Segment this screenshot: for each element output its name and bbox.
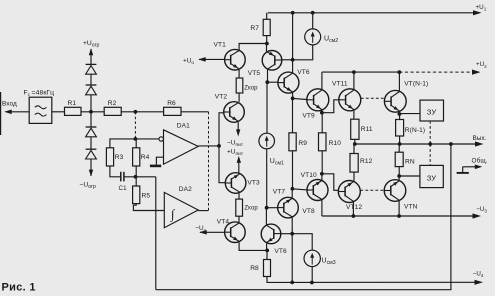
transistor VT1	[225, 49, 246, 70]
wire R(N-1) to output rail	[399, 136, 401, 144]
wire VT3 to Zkor lower	[238, 193, 240, 199]
svg-text:Вход: Вход	[2, 101, 17, 108]
wire VT12 collector to -U3 rail	[352, 202, 354, 216]
node VT8 emitter/rail	[290, 281, 294, 285]
wire node to VD3	[90, 112, 92, 128]
current source Ucm2	[305, 29, 321, 45]
resistor R5	[133, 177, 151, 204]
wire filter to R1	[52, 111, 65, 113]
wire emitter node to ZU1	[399, 113, 420, 115]
dashed wire tap down to DA1 input line	[134, 112, 136, 139]
diode VD2	[86, 85, 97, 95]
svg-text:DA2: DA2	[179, 186, 192, 193]
wire Zkor to VT2 collector	[238, 93, 240, 102]
dashed link VT12 to VTN	[360, 189, 384, 191]
resistor RN	[395, 152, 415, 166]
wire bus to VT7 top	[265, 208, 267, 225]
node VTN/-U3 rail	[397, 214, 401, 218]
node feedback on rail	[449, 142, 453, 146]
dashed wire ZU2 to output rail	[429, 144, 431, 165]
transistor VT11	[339, 89, 361, 111]
node VT5/VT6/Ucm2	[291, 58, 295, 62]
transistor VT7 (lower driver)	[261, 224, 281, 244]
wire R6 to integrator link	[181, 111, 209, 113]
svg-text:R10: R10	[329, 140, 342, 147]
resistor R(N-1)	[396, 120, 426, 137]
wire R11 to output rail	[354, 139, 356, 144]
svg-text:R2: R2	[108, 100, 117, 107]
power rail +U2 dashed part	[399, 71, 473, 73]
wire VT9 collector to +U2 rail	[321, 72, 323, 89]
node R9/VT8/VT10-base	[291, 187, 295, 191]
arrow to -Upit	[236, 129, 240, 136]
svg-text:R5: R5	[142, 192, 151, 199]
node R7/VT1/VT5	[265, 42, 269, 46]
wire VTN emitter up	[398, 176, 400, 180]
wire DA1 inverting input line	[110, 139, 161, 148]
wire VD1-VD2	[90, 74, 92, 85]
arrow -U3	[473, 213, 482, 218]
resistor R3	[106, 148, 123, 166]
wire VT5 right lead	[281, 59, 293, 61]
wire VT11 emitter to R11	[353, 111, 355, 120]
wire C1 to node	[124, 176, 156, 178]
resistor R1	[65, 100, 82, 116]
node junction C1/R4/R5	[134, 175, 138, 179]
svg-text:R3: R3	[115, 154, 124, 161]
wire VT5 bottom lead	[267, 70, 269, 83]
wire VT6 emitter to VT9 base	[293, 98, 307, 99]
wire R10 to VT10 emitter node	[321, 151, 323, 174]
wire VT6 base	[267, 81, 278, 83]
node VT8 base tee	[265, 206, 269, 210]
wire -Uo arrow to VT4 base	[199, 230, 225, 235]
wire VT9 emitter	[321, 111, 323, 113]
wire driver bus down to VT3 base	[219, 146, 226, 183]
arrow +U2	[472, 70, 481, 75]
wire Ucm1 to VT8 base bus	[266, 149, 268, 208]
arrow +U1	[473, 10, 482, 15]
wire VT8 emitter down	[291, 218, 293, 283]
dashed wire ZU1 to output rail	[429, 121, 431, 144]
node VT(N-1)/rail	[397, 70, 401, 74]
power rail +U1	[268, 12, 480, 14]
svg-text:VT12: VT12	[346, 204, 362, 211]
wire rail to R12	[353, 144, 355, 154]
svg-text:VT4: VT4	[217, 219, 230, 226]
wire R1 to R2	[81, 111, 104, 113]
transistor VT5	[262, 51, 282, 71]
wire VT2 emitter down	[237, 122, 239, 130]
svg-text:VT1: VT1	[214, 41, 227, 48]
svg-text:DA1: DA1	[177, 122, 190, 129]
op-amp DA1	[159, 122, 198, 164]
svg-text:VT6: VT6	[297, 69, 310, 76]
node Ucm3/rail	[310, 281, 314, 285]
common arrow with ground	[457, 165, 483, 173]
wire VT9 emitter to VT11 base	[322, 100, 339, 113]
wire R5 bottom to DA2 input	[133, 204, 164, 211]
resistor R10	[319, 133, 342, 151]
arrow Vykh	[475, 141, 484, 146]
wire VT1 emitter to Zkor	[238, 70, 240, 78]
svg-text:R8: R8	[250, 265, 259, 272]
svg-text:R9: R9	[298, 140, 307, 147]
svg-text:VT6: VT6	[274, 248, 287, 255]
correction impedance Zkor lower	[236, 199, 259, 216]
node ZU link on rail	[428, 142, 432, 146]
svg-text:R6: R6	[167, 100, 176, 107]
node VT10 emitter junction	[320, 172, 324, 176]
node VT12/-U3 rail	[352, 214, 356, 218]
svg-text:Вых.: Вых.	[473, 135, 487, 142]
node VT6 emitter junction	[291, 97, 295, 101]
node R11/R12 on rail	[353, 142, 357, 146]
low-pass filter block (≈)	[29, 97, 52, 123]
node junction R1/R2/diodes	[89, 110, 93, 114]
svg-text:VT9: VT9	[302, 113, 315, 120]
protection unit ZU upper	[420, 100, 444, 121]
wire feedback node down	[155, 177, 157, 290]
diode VD3	[86, 127, 97, 137]
wire VT8 base	[267, 207, 278, 209]
power rail -U4	[292, 281, 479, 283]
power rail -U3	[322, 215, 478, 217]
transistor VT4	[225, 222, 246, 243]
svg-text:Общ.: Общ.	[472, 157, 488, 165]
resistor R6	[164, 100, 181, 116]
node VT4/VT7/R8	[265, 249, 269, 253]
svg-text:VT11: VT11	[332, 81, 348, 88]
wire Ucm3 bottom to rail	[311, 267, 313, 283]
arrow -U4	[475, 280, 484, 285]
svg-text:C1: C1	[119, 185, 128, 192]
current source Ucm1	[259, 133, 275, 149]
wire bus to Ucm1	[266, 82, 268, 133]
wire R3 bottom to C1	[110, 166, 121, 177]
node RN/VTN/ZU2	[397, 174, 401, 178]
transistor VT3	[225, 173, 246, 194]
feedback wire from output rail to bottom	[156, 144, 451, 290]
node DA1 output junction	[217, 144, 221, 148]
resistor R9	[289, 133, 307, 151]
transistor VT9	[307, 89, 329, 111]
resistor R7	[250, 19, 270, 35]
wire node to R8	[266, 250, 268, 259]
transistor VT10	[307, 180, 328, 201]
current source Ucm3	[304, 250, 320, 266]
resistor R8	[250, 260, 270, 277]
power rail +U2 solid part	[322, 71, 399, 73]
wire DA1 noninv input to ground	[156, 157, 163, 164]
wire VT7 right lead	[280, 233, 292, 235]
wire VD4 down	[90, 159, 92, 176]
node junction on DA1 input line	[134, 137, 138, 141]
wire RN to VTN node	[398, 167, 400, 176]
op-amp DA2 (integrator)	[164, 186, 198, 228]
transistor VT(N-1)	[384, 90, 406, 112]
wire VTN collector to -U3 rail	[398, 201, 400, 216]
wire VT(N-1) collector to rail	[398, 72, 400, 90]
svg-text:R12: R12	[360, 158, 373, 165]
svg-text:VT(N-1): VT(N-1)	[404, 80, 428, 87]
input wire with left arrow	[4, 110, 29, 115]
svg-text:VT8: VT8	[302, 208, 315, 215]
wire VT1 collector to R7 node	[239, 44, 267, 50]
svg-text:ЗУ: ЗУ	[427, 108, 437, 117]
node R(N-1)/RN on rail	[398, 142, 402, 146]
wire VT4 emitter to R8 node	[239, 242, 267, 250]
transistor VT12	[338, 181, 360, 203]
transistor VT6	[278, 72, 299, 93]
svg-text:R4: R4	[141, 154, 150, 161]
wire VT10 emitter up	[321, 174, 323, 180]
svg-text:VT7: VT7	[273, 188, 286, 195]
dashed link VT11 to VT(N-1)	[361, 97, 384, 99]
transistor VT8	[278, 197, 299, 218]
wire Ucm2 to VT5/VT6 node	[293, 45, 313, 60]
wire VT5 top lead	[266, 44, 268, 52]
arrow to -Uogr	[89, 170, 93, 177]
svg-text:R(N-1): R(N-1)	[405, 127, 425, 134]
wire node to ZU2	[399, 175, 420, 177]
node VT7/VT8/Ucm3	[290, 232, 294, 236]
transistor VT2	[224, 102, 245, 123]
capacitor C1	[119, 172, 128, 192]
node VT11/rail	[352, 70, 356, 74]
node VT6 base tee	[265, 80, 269, 84]
node VT9 emitter junction	[320, 111, 324, 115]
node rail/Ucm2	[311, 11, 315, 15]
wire node to R9	[292, 98, 294, 132]
node rail/VT6 collector	[291, 11, 295, 15]
arrow to +Uogr	[89, 48, 93, 55]
ground bar at DA1	[150, 165, 161, 168]
diode VD4	[86, 149, 97, 159]
svg-text:VT3: VT3	[247, 179, 260, 186]
wire VT8 collector up	[291, 189, 293, 198]
resistor R2	[104, 100, 121, 116]
resistor R12	[350, 154, 373, 173]
wire R12 to VT12 emitter	[353, 172, 355, 181]
dashed wire to DA2 output	[208, 112, 210, 211]
svg-text:Zкор: Zкор	[244, 86, 258, 92]
wire node to R(N-1)	[399, 114, 401, 120]
svg-text:VT5: VT5	[248, 70, 261, 77]
wire +Uo arrow to VT1 base	[198, 57, 225, 62]
svg-text:=48кГц: =48кГц	[32, 90, 55, 97]
wire VT6 emitter	[292, 93, 294, 99]
wire VT11 collector to rail	[353, 72, 355, 89]
wire VD2 to node	[90, 95, 92, 112]
wire (scan edge mark)	[0, 92, 2, 135]
svg-text:R7: R7	[250, 25, 259, 32]
correction impedance Zkor upper	[236, 78, 258, 93]
wire R9 to VT10 node	[292, 151, 294, 189]
node VT(N-1) emitter junction	[398, 112, 402, 116]
transistor VTN	[384, 180, 406, 202]
svg-text:VT2: VT2	[215, 94, 228, 101]
svg-text:RN: RN	[405, 159, 415, 166]
wire diode chain upper	[90, 49, 92, 65]
wire rail to R7	[266, 13, 268, 19]
wire Zkor to VT4	[238, 216, 240, 222]
protection unit ZU lower	[420, 165, 443, 187]
wire VD3-VD4	[90, 137, 92, 150]
wire VT(N-1) emitter	[398, 112, 400, 114]
wire R8 to bottom rail	[267, 277, 292, 283]
wire VT6 collector to rail	[292, 13, 294, 73]
svg-text:R11: R11	[361, 126, 373, 133]
wire VT10 base	[292, 189, 307, 190]
wire VT7 bottom lead	[266, 243, 268, 250]
svg-text:Zкор: Zкор	[244, 205, 258, 211]
svg-text:R1: R1	[68, 100, 77, 107]
svg-text:ЗУ: ЗУ	[427, 173, 437, 182]
arrow from +Upit to VT3	[237, 156, 241, 173]
wire VT10 collector down	[321, 200, 323, 216]
wire R7 to node	[266, 36, 268, 44]
wire rail to RN	[398, 144, 400, 152]
svg-text:VT10: VT10	[301, 172, 317, 179]
svg-text:VTN: VTN	[404, 204, 418, 211]
diode VD1	[86, 64, 97, 74]
svg-text:Рис. 1: Рис. 1	[2, 282, 36, 294]
wire DA1 output	[198, 145, 219, 147]
node junction R2/R6/feedback tap	[134, 110, 138, 114]
wire Ucm3 top to VT7/VT8 node	[292, 234, 312, 251]
resistor R11	[351, 119, 373, 139]
wire R2 to R6	[121, 111, 163, 113]
wire VT10 emitter to VT12 base	[322, 174, 338, 191]
wire driver bus up to VT2 base	[219, 113, 224, 146]
wire DA2 output	[198, 210, 208, 212]
wire node to R10	[321, 113, 323, 133]
output rail Vykh	[355, 143, 480, 145]
resistor R4	[133, 139, 150, 177]
wire rail to Ucm2	[312, 13, 314, 29]
